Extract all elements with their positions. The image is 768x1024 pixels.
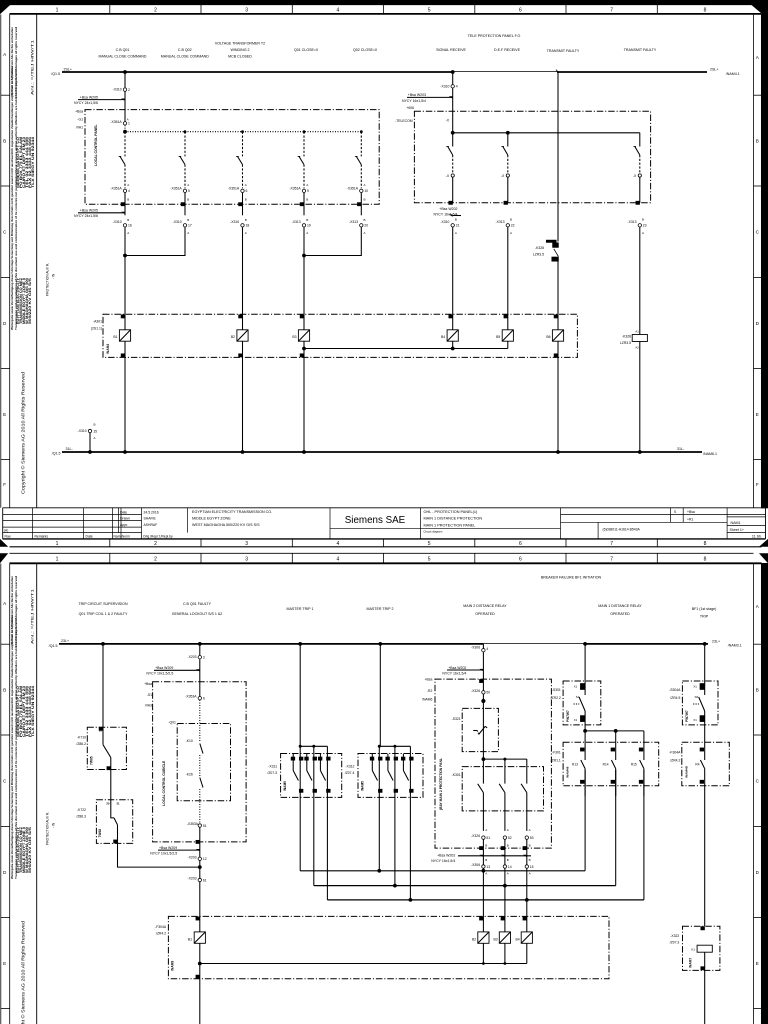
svg-text:6: 6 [519,8,522,14]
contact R14 [615,731,617,760]
svg-text:TRANSMIT FAULTY: TRANSMIT FAULTY [547,49,580,53]
svg-text:2: 2 [154,556,157,562]
svg-text:A: A [529,828,531,832]
svg-text:E: E [3,961,6,966]
svg-text:1: 1 [56,556,59,562]
svg-text:-X313: -X313 [349,220,358,224]
svg-text:8: 8 [704,541,707,547]
svg-text:B6: B6 [546,335,550,339]
wire relay common connector [304,348,508,350]
svg-text:TRIP: TRIP [700,615,709,619]
frame right row letters [756,55,760,487]
title block outer lines [3,507,766,509]
svg-text:-X311: -X311 [268,764,277,768]
coil box exit tick B1 [196,975,199,978]
telecom receive contact 2 [507,133,509,147]
svg-text:B: B [187,198,189,202]
junction rail start [123,130,127,134]
svg-text:/ZR4.2: /ZR4.2 [670,759,680,763]
wire K322 to sheet edge [704,952,706,1024]
svg-text:500/220 KV GIS S/S: 500/220 KV GIS S/S [28,826,32,873]
svg-text:B: B [306,218,308,222]
svg-text:A: A [364,231,366,235]
wire X353A-51 to cubicle edge [199,827,201,859]
svg-text:5: 5 [188,189,190,193]
svg-text:-X306: -X306 [471,863,480,867]
junction bottom bus x=242.5 [241,450,245,454]
svg-text:C.B Q01: C.B Q01 [116,48,130,52]
terminal strip contacts -X312 [370,754,413,792]
wire telecom rail [453,132,640,134]
svg-text:B: B [306,198,308,202]
svg-text:4: 4 [337,8,340,14]
wire bus to K328 contact [557,72,559,242]
svg-text:9: 9 [307,189,309,193]
wire B6 to bottom bus [557,341,559,452]
junction bottom bus x=558 [556,450,560,454]
junction bottom bus x=125 [123,450,127,454]
svg-text:Drawn: Drawn [120,517,130,521]
junction 23L+ bus x=585.1 [583,642,587,646]
contact K301-2 [504,759,506,784]
svg-text:+Bsa W202: +Bsa W202 [448,666,466,670]
contact -K722 exit wire to node [118,825,200,867]
wire bus to X306-4 [482,644,484,649]
svg-text:R13: R13 [572,763,578,767]
frame right row dividers [754,95,762,459]
svg-text:-X: -X [633,174,637,178]
main2 panel box [435,679,551,848]
svg-text:-Q01: -Q01 [168,720,176,724]
svg-text:B2: B2 [472,938,476,942]
svg-text:A: A [507,872,509,876]
svg-text:Copyright © Siemens AG 2010 Al: Copyright © Siemens AG 2010 All Rights R… [21,920,26,1024]
svg-text:15: 15 [530,865,534,869]
svg-text:-X313: -X313 [627,220,636,224]
svg-text:/NAM3.1: /NAM3.1 [728,644,742,648]
svg-text:C: C [3,229,7,234]
svg-text:Date: Date [86,535,93,539]
breaker aux box -Q01 [177,724,230,801]
svg-text:-F304A: -F304A [155,925,167,929]
svg-text:-K328: -K328 [535,246,544,250]
svg-text:-X310: -X310 [113,220,122,224]
contact -K710 blade [103,745,111,758]
sheet 2 top grid band [10,553,754,562]
svg-text:MANUAL CLOSE COMMAND: MANUAL CLOSE COMMAND [99,54,147,58]
contact K301-3 [526,759,528,784]
terminals -X326 51 52 53 [471,828,534,867]
svg-text:B4: B4 [515,938,519,942]
border column address block B [16,277,32,324]
svg-text:-X203: -X203 [187,856,196,860]
svg-text:-X353A: -X353A [185,695,197,699]
svg-text:- IN: - IN [51,822,55,828]
svg-text:A: A [127,118,129,122]
svg-text:/Z07.3: /Z07.3 [267,771,277,775]
svg-text:WINDING 2: WINDING 2 [231,48,250,52]
svg-text:6: 6 [519,541,522,547]
svg-text:E: E [3,412,6,417]
wire top bus 2SL+ thick left segment [62,71,453,73]
svg-text:/VA3: /VA3 [145,704,152,708]
svg-text:Norm: Norm [122,535,130,539]
switch box -S301 ticks and pins [581,684,585,690]
svg-text:-X310: -X310 [173,220,182,224]
svg-text:A: A [127,231,129,235]
contact box -K301 [462,767,543,811]
svg-text:-X: -X [446,174,450,178]
contact box -F304A [682,742,730,786]
svg-text:D: D [756,870,760,875]
svg-text:/NAM4.1: /NAM4.1 [726,72,740,76]
coil -K322 entry tick [701,927,704,930]
svg-text:/Q1.5: /Q1.5 [51,72,60,76]
svg-text:TRANSMIT FAULTY: TRANSMIT FAULTY [624,48,657,52]
svg-text:F: F [756,482,759,487]
wire X306-13 to rail and coil B2 [482,868,484,932]
svg-text:-X: -X [501,174,505,178]
svg-text:A: A [3,52,7,57]
frame left row letters [3,52,7,487]
svg-text:NYCY 10x1,5/2,5: NYCY 10x1,5/2,5 [146,672,173,676]
svg-text:B: B [3,687,6,692]
svg-text:D: D [3,870,7,875]
junction on bus at b1 [123,70,127,74]
svg-text:-X310: -X310 [230,220,239,224]
relay coils B2 B3 B4 sheet2 [472,917,532,943]
relay box entry tick B5 [504,315,507,318]
svg-text:R4: R4 [695,763,699,767]
svg-text:-X306: -X306 [471,646,480,650]
svg-text:7: 7 [610,8,613,14]
frame left letter column line [9,15,11,508]
svg-text:17: 17 [188,224,192,228]
svg-text:/NAM5: /NAM5 [283,781,287,791]
wire b4 to relay B3 [303,227,305,329]
svg-text:-X353A: -X353A [187,822,199,826]
wire R15 to rail3 [643,770,645,900]
svg-text:PW7W7: PW7W7 [566,710,570,722]
svg-text:TLX SIEGY UN 92344: TLX SIEGY UN 92344 [31,137,35,188]
relay box exit tick B2 [239,354,242,357]
junction B3 common [302,347,306,351]
wire bottom bus 31L- [62,451,702,453]
svg-text:=(S) NAM1 FCJ (6)038011: =(S) NAM1 FCJ (6)038011 [10,66,14,98]
svg-text:OPERATED: OPERATED [610,612,630,616]
svg-text:NYCY 10x1,5/2,5: NYCY 10x1,5/2,5 [150,852,177,856]
svg-text:Date: Date [120,510,127,514]
svg-text:14: 14 [508,865,512,869]
comb bar -X312 [379,745,410,747]
wire dotted rail in panel [125,131,361,133]
svg-text:B: B [127,198,129,202]
svg-text:B: B [187,218,189,222]
svg-text:2SL+: 2SL+ [64,67,73,71]
svg-text:7W48: 7W48 [98,829,102,838]
sheet 1 top-right fold corner [751,5,768,19]
svg-text:6: 6 [203,696,205,700]
svg-text:(2S1.1): (2S1.1) [91,327,102,331]
svg-text:3: 3 [245,556,248,562]
svg-text:A: A [306,183,308,187]
wire X310-2 to X351A-1 [124,92,126,122]
contact -K722 blade [111,800,114,818]
svg-text:/Z86.2: /Z86.2 [76,742,86,746]
junction telecom rail t2 [506,131,510,135]
coil box -K322 [683,926,720,970]
svg-text:/NAM4B: /NAM4B [684,765,688,778]
svg-text:-K710: -K710 [77,735,86,739]
svg-text:SIGNAL RECEIVE: SIGNAL RECEIVE [436,48,466,52]
panel boundary tick b1 [121,203,124,206]
svg-text:-F304A: -F304A [669,750,681,754]
svg-text:Siemens SAE: Siemens SAE [345,515,406,526]
svg-text:MIDDLE EGYPT ZONE: MIDDLE EGYPT ZONE [192,517,231,521]
svg-text:-TELECOM: -TELECOM [395,119,413,123]
wire R14 to rail2 [615,770,617,886]
svg-text:B: B [245,198,247,202]
terminal strip box -X312 [358,754,423,798]
svg-text:-S321: -S321 [452,717,461,721]
wire top bus 2SL+ thick right segment [557,71,707,73]
title block Siemens SAE logo cell [345,508,421,539]
frame right black edge bar [762,564,768,1024]
svg-text:E: E [756,412,759,417]
wire K328 contact to relay B6 [557,258,559,330]
switch contact S5 in local panel [360,132,362,157]
svg-text:/NAM48: /NAM48 [566,766,570,778]
junction 23L+ bus x=380.3 [378,642,382,646]
frame left row letters [3,601,7,966]
svg-text:+Bsa W209: +Bsa W209 [159,846,177,850]
svg-text:-K722: -K722 [77,808,86,812]
relay box entry tick B4 [449,315,452,318]
telecom boundary tick 2 [504,201,507,204]
wire K328 to bottom bus [639,342,641,453]
sheet 2 top-right fold corner [759,553,768,563]
svg-text:-X203: -X203 [187,655,196,659]
svg-text:MAIN 2 DISTANCE RELAY: MAIN 2 DISTANCE RELAY [463,604,507,608]
svg-text:Q02 CLOSE=0: Q02 CLOSE=0 [353,48,377,52]
telecom panel box [414,111,650,203]
svg-text:19: 19 [307,224,311,228]
svg-text:PROTECTION AUX R.: PROTECTION AUX R. [45,812,49,845]
junction telecom rail t1 [451,131,455,135]
svg-text:=(S) NAM1 FCJ (6)038011: =(S) NAM1 FCJ (6)038011 [10,615,14,647]
svg-text:/NAM9: /NAM9 [171,961,175,971]
contact box -F301 [563,742,659,786]
svg-text:/ZR2.2: /ZR2.2 [551,696,561,700]
svg-text:X1: X1 [693,684,697,688]
svg-text:B: B [455,218,457,222]
svg-text:A: A [756,55,760,60]
svg-text:WEST MAGHAGHA 500/220 KV GIS S: WEST MAGHAGHA 500/220 KV GIS S/S [192,523,260,527]
svg-text:+Bsa W202: +Bsa W202 [439,207,457,211]
svg-text:(6)038011-A1614 B543A: (6)038011-A1614 B543A [603,528,641,532]
svg-text:2: 2 [128,88,130,92]
sheet 1 bottom grid band [10,539,762,547]
svg-text:15: 15 [93,429,97,433]
svg-text:+Bsa W202: +Bsa W202 [437,853,455,857]
sheet 1 inner left border [36,15,38,508]
svg-text:B: B [485,858,487,862]
trip rail 3 [327,899,644,901]
svg-text:20: 20 [364,224,368,228]
wire t3 to coil K328 [639,227,641,334]
junction on bus at telecom feed [451,70,455,74]
wire B1 to bottom bus [124,341,126,452]
svg-text:Remarks: Remarks [35,535,49,539]
wire -X351A to panel edge [184,193,186,216]
svg-text:2SL+: 2SL+ [710,68,719,72]
svg-text:NAM1: NAM1 [731,521,741,525]
svg-text:4: 4 [486,647,488,651]
svg-text:-X310: -X310 [440,84,449,88]
wire b5 joins b4 [304,227,361,255]
relay box entry tick B6 [554,315,557,318]
svg-text:18: 18 [246,224,250,228]
svg-text:R14: R14 [603,763,609,767]
local control panel box [85,110,379,205]
svg-text:-K26: -K26 [186,772,193,776]
svg-text:A: A [642,231,644,235]
svg-text:E: E [756,961,759,966]
svg-text:B: B [364,198,366,202]
junction K722 node [199,861,201,879]
svg-text:LOCAL CONTROL PANEL: LOCAL CONTROL PANEL [94,125,98,166]
svg-text:OPERATED: OPERATED [475,612,495,616]
svg-text:A: A [455,231,457,235]
comb bar -X311 [300,745,327,747]
svg-text:X1: X1 [574,718,578,722]
svg-text:-X313: -X313 [495,220,504,224]
svg-text:B: B [485,843,487,847]
wire bus to X310-4 [452,72,454,84]
svg-text:B: B [756,138,759,143]
svg-text:C.B Q01 FAULTY: C.B Q01 FAULTY [183,602,212,606]
relay box entry tick B3 [300,315,303,318]
svg-text:52: 52 [508,836,512,840]
wire top bus 23L+ thin middle segment [483,643,585,645]
svg-text:-X326: -X326 [471,689,480,693]
svg-text:8: 8 [704,556,707,562]
svg-text:Circuit diagram: Circuit diagram [424,530,443,534]
svg-text:-X326: -X326 [471,834,480,838]
contact box -K710 [87,727,126,769]
relay box entry tick B2 [239,315,242,318]
svg-text:-S304A: -S304A [669,688,681,692]
svg-text:4: 4 [456,85,458,89]
switch box -S304A ticks [700,684,704,690]
svg-text:5: 5 [428,8,431,14]
svg-text:S6: S6 [695,695,699,699]
panel boundary tick b3 [239,203,242,206]
wire top bus 23L+ thick right segment [585,643,708,645]
svg-text:B1: B1 [188,938,192,942]
svg-text:Anl.: =/TEJ HfW/T1: Anl.: =/TEJ HfW/T1 [31,40,35,95]
wire -X351A to panel edge [360,193,362,216]
relay box exit tick B3 [300,354,303,357]
junction bottom bus x=304 [302,450,306,454]
svg-text:21: 21 [117,801,121,805]
svg-text:A: A [529,872,531,876]
wire bus to K710 box [102,644,104,745]
svg-text:MAIN 1 DISTANCE RELAY: MAIN 1 DISTANCE RELAY [598,604,642,608]
svg-text:20: 20 [106,801,110,805]
svg-text:X1: X1 [574,684,578,688]
svg-text:6: 6 [519,556,522,562]
wire dotted between contacts [199,755,201,776]
sheet 1 top-left fold corner [0,0,16,14]
border column address block B [16,826,32,873]
wire -X351A to panel edge [303,193,305,216]
svg-text:MANUAL CLOSE COMMAND: MANUAL CLOSE COMMAND [161,54,209,58]
svg-text:/ZR4.2: /ZR4.2 [156,932,166,936]
wire t1 to relay B4 [452,227,454,329]
svg-text:A: A [245,231,247,235]
svg-text:ASHRAF: ASHRAF [144,523,158,527]
wire -X351A to panel edge [242,193,244,216]
svg-text:-K328: -K328 [622,334,631,338]
svg-text:A: A [3,601,7,606]
svg-text:11 Sh.: 11 Sh. [752,535,762,539]
wire B4 bottom connector [452,341,454,348]
svg-text:OHL - PROTECTION PANEL(1): OHL - PROTECTION PANEL(1) [424,510,479,514]
coil -K322 exit tick [701,967,704,970]
wire dotted to X353A-51 [199,789,201,824]
svg-text:-A301: -A301 [93,319,102,323]
telecom boundary tick 3 [636,201,639,204]
svg-text:TRIP CIRCUIT SUPERVISION: TRIP CIRCUIT SUPERVISION [78,602,128,606]
border column address block A [16,137,35,188]
sheet 1 bottom-right fold corner [759,539,768,547]
svg-text:+Bsa: +Bsa [687,510,695,514]
svg-text:B1: B1 [113,335,117,339]
sheet 2 headers [78,576,716,619]
svg-text:C: C [756,778,760,783]
svg-text:22: 22 [511,224,515,228]
svg-text:3: 3 [203,656,205,660]
svg-text:LZR3.5: LZR3.5 [620,341,631,345]
terminals -X306 13 14 15 [471,858,534,876]
junction bus X310-15 [88,450,92,454]
title block company cell [192,508,330,539]
svg-text:-X322: -X322 [670,934,679,938]
coil box entry tick B1 [196,917,199,920]
svg-text:31L-: 31L- [66,447,74,451]
svg-text:-X310: -X310 [78,429,87,433]
relay box exit tick B1 [121,354,124,357]
svg-text:D: D [756,321,760,326]
elbow at K328 branch [556,70,558,72]
svg-text:61: 61 [203,878,207,882]
svg-text:Rav.: Rav. [5,535,12,539]
contact K301-1 [482,759,484,784]
wire bus to X203-3 [199,644,201,655]
svg-text:B: B [510,218,512,222]
junction B4 common [451,347,455,351]
svg-text:8: 8 [704,8,707,14]
svg-text:2: 2 [154,8,157,14]
svg-text:+Bsa W203: +Bsa W203 [408,93,426,97]
frame right letter column line [753,15,755,508]
svg-text:/NAM7: /NAM7 [689,958,693,968]
junction b1-b2 [123,254,127,258]
svg-text:X1: X1 [693,718,697,722]
wire top bus 23L+ thick left segment [59,643,483,645]
svg-text:TELE PROTECTION PANEL F.O: TELE PROTECTION PANEL F.O [468,34,521,38]
